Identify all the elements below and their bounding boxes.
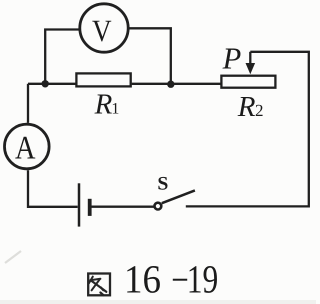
node B junction dot [167,81,174,88]
caption hanzi 图 (drawn) : enclosure box [88,274,110,296]
wire from voltmeter right terminal down to node B [129,28,171,84]
switch S blade [162,190,195,203]
wire battery to ammeter bottom (bottom-left corner) [28,170,78,207]
switch S pivot circle [155,203,162,210]
wire switch pivot to battery positive plate [91,206,154,208]
wire main top rail left (node A to R1 left) [28,83,76,85]
wire wiper to right rail (top-right corner, down right side, bottom-right) [186,52,309,207]
voltmeter U1 circle [80,4,128,52]
rheostat R2 body [221,76,275,88]
svg-text:V: V [92,13,112,48]
faint scan shadow bottom edge [0,300,316,304]
resistor R1 body [76,73,130,86]
ammeter U2 circle [5,124,50,169]
svg-text:A: A [15,130,36,166]
svg-text:S: S [157,174,168,195]
wire R1 right to node B to R2 left terminal [132,83,221,85]
faint scan streak bottom-left [5,251,21,263]
wiper arrowhead [246,63,256,74]
battery BT1 long plate (positive) [78,183,81,226]
svg-text:16−19: 16−19 [124,256,218,302]
node A junction dot [42,80,49,87]
svg-text:P: P [222,41,242,75]
rheostat wiper arrow stem [249,52,251,64]
battery BT1 short plate (negative) [88,199,92,216]
wire from voltmeter left terminal to node A (top-left vertical) [45,30,79,84]
wire ammeter top to node A corner [27,84,29,123]
